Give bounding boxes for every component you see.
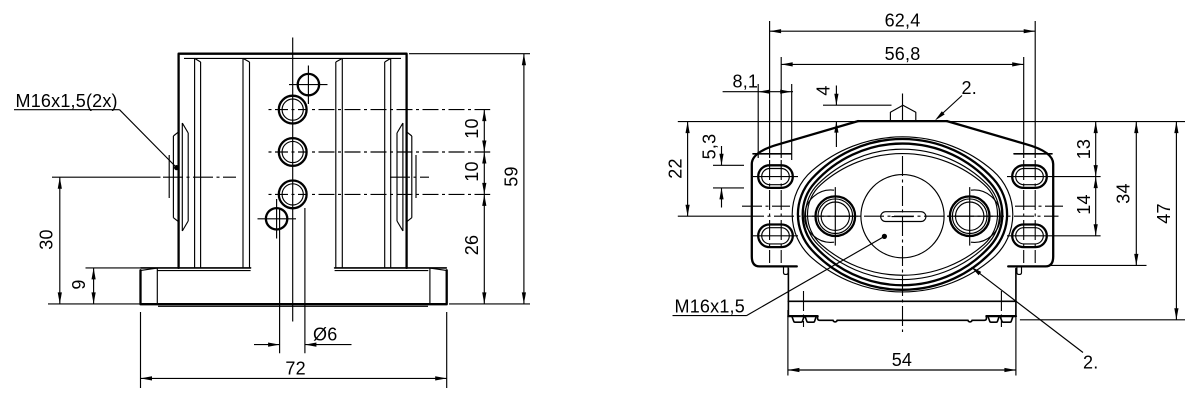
oval hole bottom-right inner — [1016, 228, 1044, 244]
svg-text:4: 4 — [814, 85, 834, 95]
leader 2. bottom — [973, 268, 1083, 352]
flange bottom recess line — [158, 305, 428, 307]
right boss M16 port — [397, 123, 416, 231]
dim 62,4 ext lines — [770, 21, 1036, 158]
dim 8,1 ext lines — [758, 84, 792, 160]
svg-text:54: 54 — [892, 350, 912, 370]
dim 34 ext line — [1050, 264, 1147, 266]
flange outline — [141, 270, 447, 304]
dim 72 ext lines — [141, 312, 447, 388]
dim 54 line — [788, 369, 1016, 371]
dim 4 ext line — [823, 104, 892, 106]
svg-text:22: 22 — [666, 158, 686, 178]
ear hanging tab left — [784, 266, 789, 274]
dim 4 line + arrows — [835, 86, 837, 148]
svg-text:Ø6: Ø6 — [313, 325, 337, 345]
dim 5,3 ext lines — [713, 165, 744, 188]
gasket pocket outline — [792, 137, 1013, 292]
oval hole top-left inner — [762, 169, 790, 185]
foot pad left 1 — [792, 317, 804, 322]
flange chamfer verticals — [141, 268, 446, 304]
dim 30 extension bottom left — [48, 303, 141, 305]
oval hole top-right inner — [1016, 169, 1044, 185]
svg-text:10: 10 — [462, 118, 482, 138]
top tab — [890, 105, 915, 121]
top cap inner line — [184, 57, 401, 59]
svg-text:2.: 2. — [962, 78, 977, 98]
svg-text:34: 34 — [1114, 183, 1134, 203]
gasket ring 3 — [806, 149, 1000, 279]
small hole bottom — [266, 208, 287, 229]
housing outline right — [947, 121, 1053, 266]
small hole top — [298, 74, 319, 95]
center slot inner — [892, 216, 914, 218]
body outline — [179, 54, 407, 268]
leader M16 left view — [120, 110, 177, 168]
svg-text:5,3: 5,3 — [700, 134, 720, 160]
dim 22 line — [687, 122, 689, 217]
dim 47 ext line bottom — [1020, 319, 1185, 321]
svg-text:47: 47 — [1154, 203, 1174, 223]
svg-text:56,8: 56,8 — [885, 44, 921, 64]
phi6 hidden hole extension lines — [280, 208, 305, 353]
svg-text:30: 30 — [37, 229, 57, 249]
svg-text:9: 9 — [69, 279, 89, 289]
dim 59 ext lines — [409, 54, 530, 304]
port boss arc left — [805, 190, 834, 242]
base strip top line — [788, 300, 1016, 302]
dim 9 line — [93, 268, 95, 304]
dim 22 ext top line (also housing top ext to right dims) — [678, 121, 1185, 123]
housing top flat edge — [858, 120, 947, 122]
svg-text:10: 10 — [462, 161, 482, 181]
housing outline left — [752, 121, 858, 266]
port left mid — [818, 199, 853, 234]
oval hole bottom-left outer — [758, 225, 793, 248]
port right vertical center line — [969, 187, 971, 246]
dim 54 ext lines — [788, 310, 1016, 376]
center line vertical — [292, 38, 294, 322]
oval crosshair h top-left — [753, 176, 798, 178]
oval hole top-right outer — [1012, 165, 1047, 188]
foot pad right 1 — [988, 317, 999, 322]
small hole bottom crosshair — [258, 199, 297, 239]
boss center line right — [390, 176, 429, 178]
svg-text:72: 72 — [285, 359, 305, 379]
boss center line left / 30 ext — [52, 176, 161, 178]
port left outer — [816, 196, 856, 236]
main horizontal center line solid ext (22) — [678, 215, 744, 217]
leader M16 right view — [747, 236, 885, 315]
foot band left — [788, 315, 817, 317]
port left vertical center line — [834, 187, 836, 246]
base bottom profile with feet — [788, 301, 1016, 315]
central circle — [861, 175, 944, 258]
ear mid center line left — [742, 205, 790, 207]
port right outer — [950, 196, 990, 236]
dim 72 line — [141, 377, 447, 379]
base hidden hole center line right — [1000, 291, 1002, 327]
dim 8,1 line — [723, 91, 793, 93]
foot band right — [986, 315, 1016, 317]
svg-text:59: 59 — [502, 166, 522, 186]
hole center lines horizontal — [266, 110, 307, 195]
big hole 2 — [279, 138, 307, 166]
oval hole bottom-right outer — [1012, 225, 1047, 248]
cap chamfer diagonals — [195, 58, 391, 62]
svg-text:M16x1,5(2x): M16x1,5(2x) — [16, 91, 118, 111]
base block sides — [788, 269, 1016, 302]
oval crosshair h bottom-right (ext to dim 14) — [1007, 235, 1101, 237]
dim phi6 line — [254, 344, 352, 346]
svg-text:2.: 2. — [1083, 353, 1098, 373]
center slot outer — [881, 212, 926, 222]
svg-text:26: 26 — [462, 235, 482, 255]
ear lug top edge left — [753, 153, 791, 155]
oval hole top-left outer — [758, 165, 793, 188]
base hidden hole center line left — [803, 291, 805, 327]
svg-text:8,1: 8,1 — [733, 71, 759, 91]
ear hanging tab right — [1017, 266, 1022, 274]
dim 62,4 line — [770, 30, 1036, 32]
web edge lines — [243, 58, 342, 268]
dim 59 line — [523, 54, 525, 304]
flange top edges — [141, 267, 446, 269]
dim 5,3 line + arrows — [721, 146, 723, 208]
dim 10/10/26 line — [483, 110, 485, 304]
oval crosshair h bottom-left — [753, 235, 798, 237]
foot pad right 2 — [1000, 317, 1012, 322]
leader 2. top — [937, 96, 962, 119]
port crosshair solid segments — [812, 215, 993, 217]
dim 47 line — [1175, 122, 1177, 320]
port boss arc right — [971, 190, 1000, 242]
oval crosshair h top-right (ext to dim 13) — [1007, 176, 1101, 178]
svg-text:13: 13 — [1074, 139, 1094, 159]
svg-text:M16x1,5: M16x1,5 — [675, 297, 745, 317]
leg bottom fillet lines — [158, 270, 429, 272]
dim 30 line — [59, 177, 61, 304]
big hole 3 — [279, 181, 307, 209]
main horizontal center line — [744, 215, 1059, 217]
svg-text:14: 14 — [1074, 194, 1094, 214]
ear lug top edge right — [1014, 153, 1052, 155]
oval hole bottom-left inner — [762, 228, 790, 244]
dim 9 ext line — [86, 267, 141, 269]
gasket ring 1 — [798, 139, 1007, 290]
port right mid — [952, 199, 987, 234]
ear mid center line right — [1015, 205, 1063, 207]
gasket ring 2 — [803, 144, 1003, 286]
main vertical center line — [902, 156, 904, 332]
small hole top crosshair — [289, 66, 328, 105]
dim 13/14 line — [1095, 122, 1097, 236]
dim 56,8 line — [781, 63, 1024, 65]
dim 56,8 ext lines — [781, 57, 1024, 158]
main vertical center line upper segment (tab) — [902, 94, 904, 123]
left boss M16 port — [169, 123, 188, 231]
svg-text:62,4: 62,4 — [885, 11, 921, 31]
base bottom middle line with dips — [818, 316, 987, 322]
body rib lines — [195, 58, 391, 268]
gasket ring 4 — [807, 154, 997, 276]
foot pad left 2 — [805, 317, 816, 322]
big hole 1 — [279, 96, 307, 124]
dim 34 line — [1135, 122, 1137, 266]
port right inner — [956, 202, 984, 230]
port left inner — [821, 202, 849, 230]
